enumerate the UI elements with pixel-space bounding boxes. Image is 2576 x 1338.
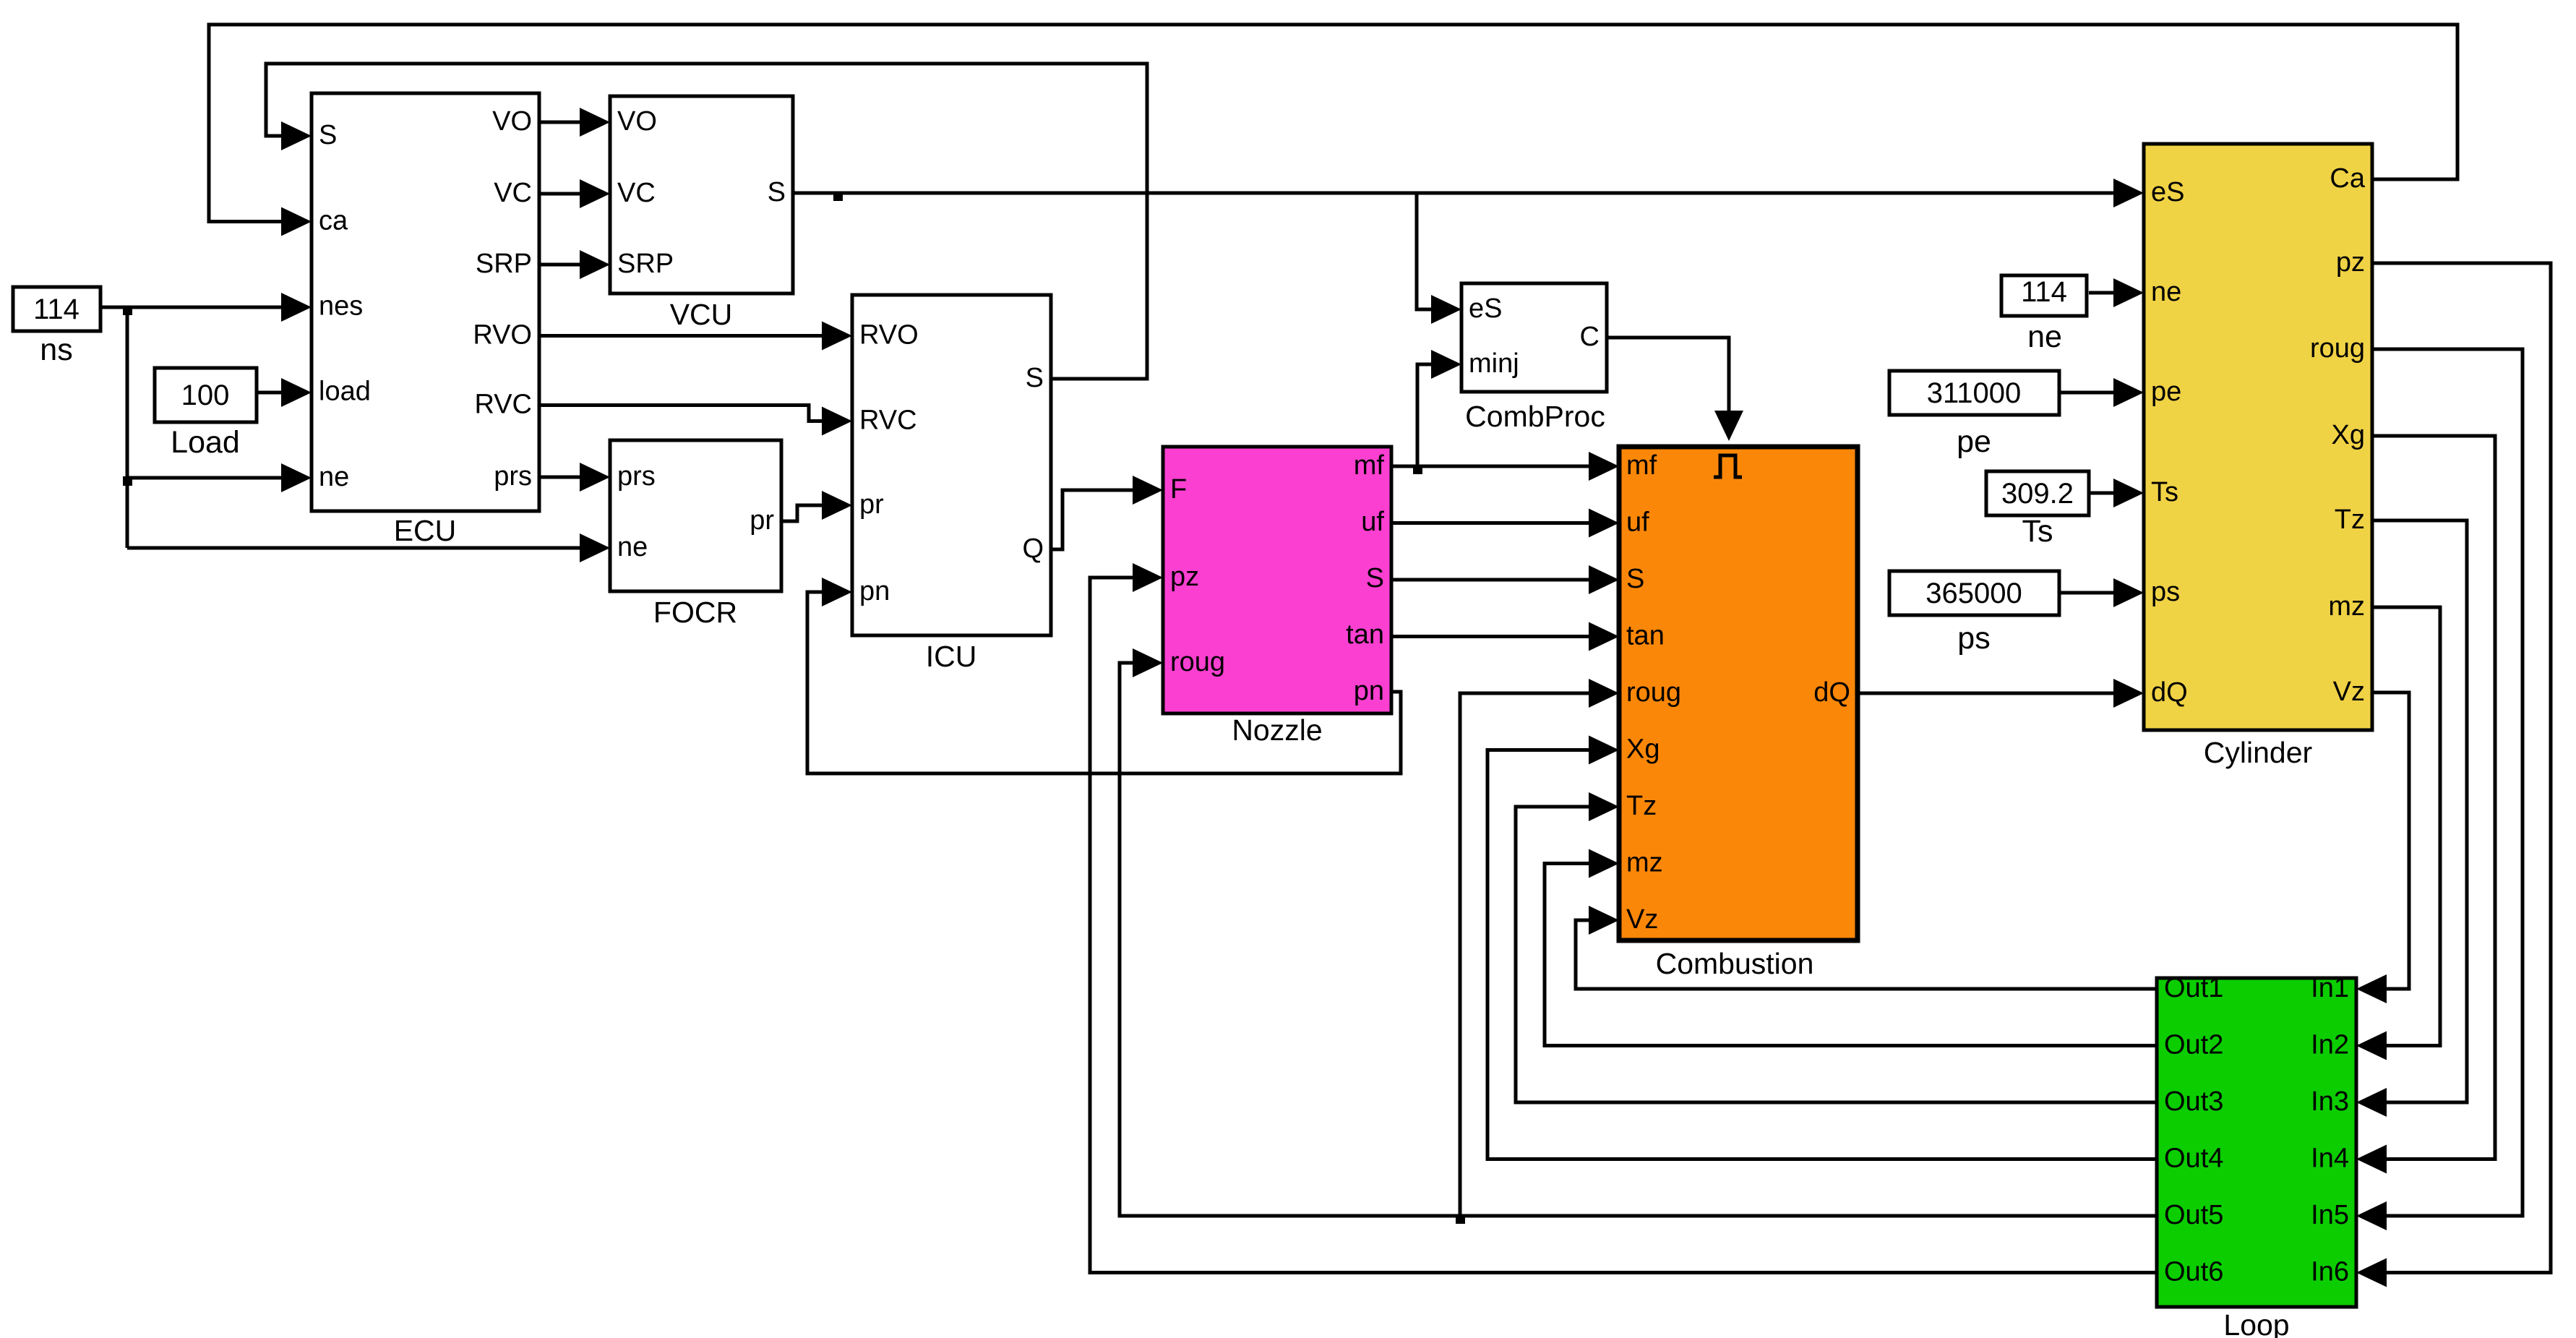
svg-text:nes: nes: [319, 291, 363, 322]
svg-text:pr: pr: [859, 489, 884, 520]
wire ECU SRP to VCU SRP: [539, 250, 610, 279]
wire ns branch to FOCR ne: [127, 533, 610, 562]
svg-text:S: S: [1026, 363, 1044, 393]
wire ICU S to ECU S feedback: [266, 64, 1147, 379]
svg-text:Out2: Out2: [2164, 1030, 2223, 1060]
svg-text:100: 100: [181, 379, 230, 411]
svg-text:Out3: Out3: [2164, 1086, 2223, 1117]
svg-text:VC: VC: [494, 178, 532, 208]
svg-text:uf: uf: [1626, 507, 1649, 538]
svg-text:Combustion: Combustion: [1656, 947, 1814, 980]
svg-text:Ts: Ts: [2022, 514, 2053, 549]
svg-text:load: load: [319, 377, 371, 407]
svg-text:In1: In1: [2311, 973, 2349, 1003]
svg-text:pn: pn: [859, 576, 890, 606]
svg-text:minj: minj: [1469, 348, 1519, 379]
subsystem block Cylinder (yellow): [2144, 144, 2372, 769]
svg-text:In6: In6: [2311, 1257, 2349, 1287]
wire Nozzle uf to Combustion uf: [1391, 509, 1619, 538]
svg-text:ps: ps: [1957, 621, 1990, 656]
svg-text:mz: mz: [2328, 591, 2365, 622]
wire ns 114 to ECU nes: [100, 293, 312, 322]
wire const ps to Cylinder ps: [2059, 578, 2144, 607]
constant block Ts (309.2): [1986, 471, 2089, 549]
svg-text:ne: ne: [319, 462, 349, 492]
svg-text:mf: mf: [1626, 450, 1657, 481]
svg-text:mf: mf: [1354, 450, 1385, 481]
svg-text:Out6: Out6: [2164, 1257, 2223, 1287]
svg-text:In4: In4: [2311, 1144, 2349, 1174]
svg-text:S: S: [768, 177, 786, 207]
svg-text:ca: ca: [319, 206, 348, 236]
svg-text:ne: ne: [2027, 320, 2062, 354]
wire Loop Out1 to Combustion Vz: [1576, 906, 2157, 989]
svg-text:pe: pe: [2151, 377, 2181, 407]
svg-text:dQ: dQ: [2151, 677, 2188, 708]
svg-text:Xg: Xg: [2332, 420, 2365, 450]
junction node on mf wire: [1413, 465, 1422, 474]
svg-text:Cylinder: Cylinder: [2204, 736, 2312, 769]
wire const Ts to Cylinder Ts: [2089, 479, 2144, 507]
svg-text:pe: pe: [1957, 424, 1991, 459]
wire Combustion dQ to Cylinder dQ: [1858, 679, 2144, 708]
wire Nozzle tan to Combustion tan: [1391, 622, 1619, 651]
svg-text:VC: VC: [617, 178, 656, 208]
svg-text:pz: pz: [1170, 562, 1199, 592]
svg-text:SRP: SRP: [617, 249, 674, 279]
svg-text:SRP: SRP: [476, 249, 532, 279]
svg-text:eS: eS: [2151, 177, 2184, 207]
svg-text:Ca: Ca: [2330, 163, 2365, 194]
svg-text:VCU: VCU: [670, 298, 733, 331]
subsystem block VCU: [610, 96, 793, 331]
wire ECU RVO to ICU RVO: [539, 322, 852, 351]
wire FOCR pr to ICU pr: [781, 491, 852, 521]
svg-text:ps: ps: [2151, 577, 2180, 607]
svg-text:pz: pz: [2336, 247, 2365, 278]
wire ICU Q to Nozzle F: [1051, 476, 1163, 549]
subsystem block Loop (green): [2157, 973, 2356, 1338]
wire Cylinder Tz to Loop In3: [2356, 520, 2467, 1117]
wire eS branch to CombProc eS: [1417, 193, 1461, 324]
wire Cylinder Xg to Loop In4: [2356, 436, 2495, 1174]
constant block ne (114): [2001, 275, 2087, 354]
svg-text:F: F: [1170, 474, 1187, 505]
svg-text:In3: In3: [2311, 1086, 2349, 1117]
svg-text:CombProc: CombProc: [1465, 400, 1605, 433]
constant block ps (365000): [1889, 571, 2059, 656]
wire const pe to Cylinder pe: [2059, 378, 2144, 407]
svg-text:Load: Load: [171, 425, 240, 460]
svg-text:roug: roug: [1626, 677, 1681, 708]
svg-text:uf: uf: [1361, 507, 1384, 537]
svg-text:RVC: RVC: [859, 406, 917, 436]
svg-text:ECU: ECU: [394, 514, 457, 547]
svg-text:Ts: Ts: [2151, 477, 2178, 507]
svg-text:eS: eS: [1469, 293, 1502, 324]
wire Cylinder Vz to Loop In1: [2356, 692, 2409, 1003]
svg-text:Out1: Out1: [2164, 973, 2223, 1003]
wire Loop Out5 to Nozzle roug: [1120, 648, 2157, 1216]
wire Cylinder mz to Loop In2: [2356, 607, 2440, 1060]
wire Cylinder Ca to ECU ca feedback: [209, 25, 2457, 236]
svg-text:Q: Q: [1022, 533, 1044, 564]
svg-text:pn: pn: [1354, 676, 1384, 706]
svg-text:pr: pr: [750, 505, 774, 536]
constant block Load (100): [155, 368, 257, 460]
svg-text:Xg: Xg: [1626, 734, 1660, 765]
wire ns branch down: [126, 307, 129, 548]
constant block pe (311000): [1889, 371, 2059, 459]
svg-text:ICU: ICU: [926, 640, 977, 673]
svg-text:Out5: Out5: [2164, 1200, 2223, 1230]
svg-text:Tz: Tz: [1626, 791, 1657, 821]
wire Nozzle mf to Combustion mf: [1391, 452, 1619, 481]
svg-text:mz: mz: [1626, 848, 1663, 878]
subsystem block ECU: [312, 93, 539, 547]
svg-text:tan: tan: [1626, 621, 1665, 651]
svg-text:FOCR: FOCR: [653, 596, 737, 629]
svg-text:VO: VO: [617, 106, 657, 137]
svg-text:dQ: dQ: [1813, 677, 1850, 708]
svg-text:309.2: 309.2: [2001, 478, 2074, 510]
svg-text:S: S: [1626, 564, 1644, 594]
svg-text:RVO: RVO: [859, 320, 919, 351]
svg-text:In2: In2: [2311, 1030, 2349, 1060]
wire Nozzle pn to ICU pn: [807, 578, 1401, 773]
svg-text:Vz: Vz: [1626, 904, 1658, 935]
subsystem block Nozzle (magenta): [1163, 447, 1391, 747]
wire ECU VO to VCU VO: [539, 108, 610, 137]
svg-text:ns: ns: [40, 333, 72, 367]
junction node on Out5 wire: [1456, 1214, 1465, 1224]
wire ECU VC to VCU VC: [539, 179, 610, 208]
svg-text:Out4: Out4: [2164, 1144, 2223, 1174]
trigger icon (pulse) inside Combustion: [1714, 455, 1742, 477]
wire VCU S to Cylinder eS: [793, 179, 2144, 207]
svg-text:S: S: [319, 120, 337, 150]
svg-text:C: C: [1580, 322, 1600, 352]
subsystem block FOCR: [610, 440, 781, 629]
wire Cylinder roug to Loop In5: [2356, 349, 2523, 1230]
wire Loop Out3 to Combustion Tz: [1516, 792, 2157, 1102]
svg-text:prs: prs: [494, 461, 532, 492]
svg-text:RVC: RVC: [474, 390, 532, 420]
svg-text:365000: 365000: [1925, 578, 2022, 609]
svg-text:311000: 311000: [1927, 377, 2022, 409]
wire CombProc C to Combustion trigger: [1607, 338, 1743, 441]
wire Load 100 to ECU load: [257, 378, 312, 407]
svg-text:RVO: RVO: [473, 320, 532, 351]
wire Cylinder pz to Loop In6: [2356, 263, 2551, 1287]
wire ns branch to ECU ne: [127, 463, 312, 492]
svg-text:S: S: [1366, 563, 1384, 593]
svg-text:roug: roug: [2310, 333, 2365, 364]
constant block ns (114): [13, 287, 100, 367]
wire Loop Out4 to Combustion Xg: [1487, 736, 2157, 1159]
subsystem block CombProc: [1461, 283, 1607, 433]
subsystem block Combustion (orange, bold border): [1619, 447, 1858, 980]
svg-text:roug: roug: [1170, 647, 1225, 677]
wire mf branch to CombProc minj: [1417, 350, 1461, 466]
svg-text:prs: prs: [617, 461, 656, 492]
svg-text:114: 114: [33, 293, 80, 325]
svg-text:Nozzle: Nozzle: [1232, 713, 1322, 747]
svg-text:ne: ne: [2151, 277, 2181, 307]
wire Out5 branch to Combustion roug: [1460, 679, 1619, 1216]
wire ECU RVC to ICU RVC: [539, 406, 852, 436]
wire Loop Out2 to Combustion mz: [1545, 849, 2157, 1046]
svg-text:VO: VO: [492, 106, 532, 137]
svg-text:tan: tan: [1346, 619, 1384, 650]
svg-text:Vz: Vz: [2333, 677, 2365, 707]
wire Loop Out6 to Nozzle pz: [1090, 563, 2157, 1273]
wire const ne to Cylinder ne: [2089, 278, 2144, 307]
junction node on ns wire: [123, 306, 132, 315]
wire ECU prs to FOCR prs: [539, 463, 610, 492]
svg-text:Tz: Tz: [2335, 505, 2365, 535]
svg-text:ne: ne: [617, 532, 648, 562]
junction node at ECU ne branch: [123, 476, 132, 486]
svg-text:Loop: Loop: [2223, 1308, 2289, 1338]
svg-text:In5: In5: [2311, 1200, 2349, 1230]
junction node on eS wire: [833, 192, 843, 201]
svg-text:114: 114: [2021, 276, 2067, 308]
subsystem block ICU: [852, 295, 1051, 673]
wire Nozzle S to Combustion S: [1391, 565, 1619, 594]
